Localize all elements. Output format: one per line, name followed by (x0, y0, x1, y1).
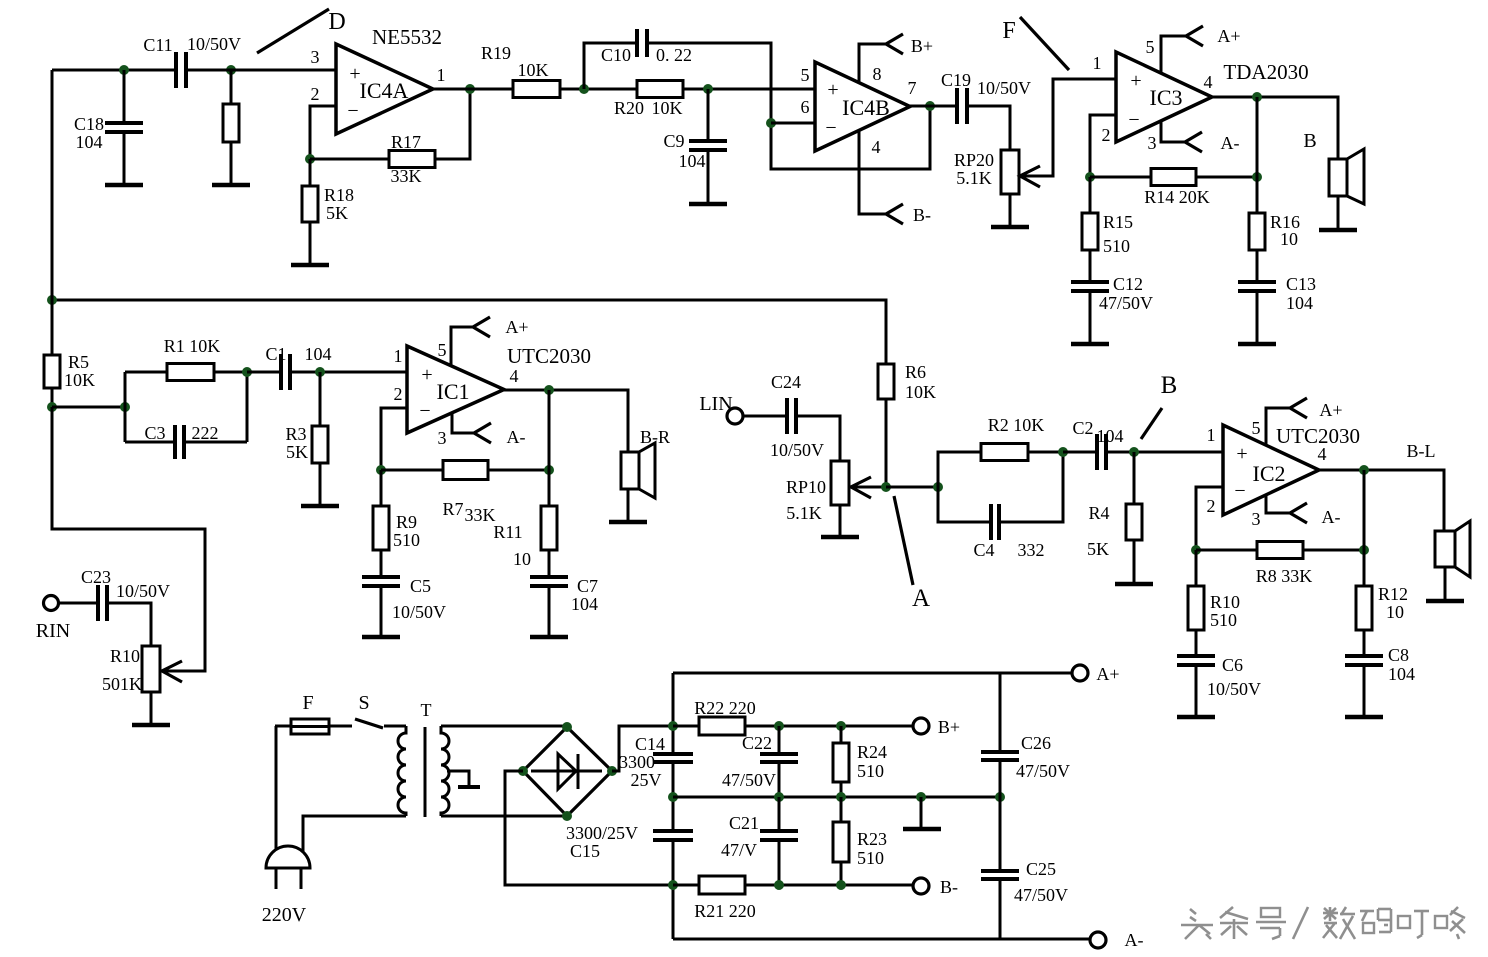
wire center tap (447, 771, 469, 786)
node junction (242, 367, 252, 377)
svg-text:10: 10 (1280, 229, 1298, 249)
op-amp IC4B (815, 62, 910, 151)
svg-text:LIN: LIN (699, 393, 732, 415)
resistor R1 (125, 336, 247, 381)
svg-text:C19: C19 (941, 70, 971, 90)
node junction (774, 721, 784, 731)
power A- stub (452, 413, 526, 447)
pin 4 (1204, 72, 1213, 92)
pin 3 (1252, 509, 1261, 529)
pin 4 (1318, 444, 1327, 464)
wire pin6 (771, 122, 815, 125)
svg-text:R8 33K: R8 33K (1256, 566, 1313, 586)
node junction (1252, 92, 1262, 102)
svg-text:A-: A- (1322, 507, 1341, 527)
svg-text:5: 5 (438, 340, 447, 360)
svg-text:47/50V: 47/50V (1099, 293, 1153, 313)
watermark text (1181, 907, 1465, 939)
node D (328, 9, 345, 35)
wire feedback (548, 390, 551, 470)
svg-text:R3: R3 (285, 424, 306, 444)
resistor R2 (938, 415, 1063, 487)
wire R5 to node (51, 388, 54, 407)
svg-text:R15: R15 (1103, 212, 1133, 232)
node junction (518, 766, 528, 776)
svg-text:C18: C18 (74, 114, 104, 134)
svg-text:C4: C4 (973, 540, 994, 560)
ground (609, 489, 647, 522)
capacitor C12 (1071, 250, 1153, 343)
svg-text:2: 2 (1207, 496, 1216, 516)
node B (1161, 372, 1178, 399)
pin 4 (510, 366, 519, 386)
wire C19 to RP20 (967, 106, 1010, 150)
resistor R17 (310, 89, 470, 186)
pin 1 (1093, 53, 1102, 73)
power A- stub (1266, 495, 1341, 527)
svg-text:C8: C8 (1388, 645, 1409, 665)
svg-text:B: B (1303, 130, 1316, 152)
node junction (305, 154, 315, 164)
svg-text:C26: C26 (1021, 733, 1051, 753)
resistor R23 (833, 797, 887, 885)
node junction (1191, 545, 1201, 555)
svg-text:C13: C13 (1286, 274, 1316, 294)
pin 1 (437, 65, 446, 85)
wire C11 to IC4A pin3 (186, 69, 336, 72)
node junction (1129, 447, 1139, 457)
wire IC4A out (433, 88, 513, 91)
svg-text:510: 510 (393, 530, 420, 550)
node junction (315, 367, 325, 377)
svg-text:−: − (1234, 480, 1245, 502)
capacitor C13 (1238, 250, 1316, 343)
svg-text:S: S (358, 692, 369, 714)
pin 2 (311, 84, 320, 104)
svg-text:2: 2 (311, 84, 320, 104)
resistor R10 (1188, 550, 1240, 630)
svg-text:5: 5 (1146, 37, 1155, 57)
node junction (668, 880, 678, 890)
pin 3 (1148, 133, 1157, 153)
node junction (47, 295, 57, 305)
svg-text:C11: C11 (143, 35, 172, 55)
capacitor C1 (247, 344, 407, 390)
node junction (1085, 172, 1095, 182)
capacitor C15 (653, 831, 693, 840)
transformer T primary (398, 726, 406, 816)
ground (1345, 665, 1383, 717)
node junction (544, 465, 554, 475)
wire R1C3 right (246, 372, 249, 442)
svg-text:10: 10 (1386, 602, 1404, 622)
svg-text:+: + (1130, 70, 1141, 92)
svg-text:B-: B- (940, 877, 958, 897)
svg-text:1: 1 (1207, 425, 1216, 445)
node A junction (881, 482, 891, 492)
svg-text:R11: R11 (493, 522, 522, 542)
node junction (668, 721, 678, 731)
svg-text:3300: 3300 (619, 752, 655, 772)
capacitor C10 (584, 29, 930, 169)
pin 6 (801, 97, 810, 117)
resistor R7 (381, 461, 549, 526)
svg-text:510: 510 (1103, 236, 1130, 256)
svg-text:A-: A- (1221, 133, 1240, 153)
ground (301, 463, 339, 506)
pin 5 (801, 65, 810, 85)
svg-text:+: + (827, 79, 838, 101)
capacitor C26 (981, 733, 1070, 781)
wire wiper to node A (851, 486, 886, 489)
ground (1115, 540, 1153, 584)
ground (821, 530, 859, 537)
svg-text:1: 1 (394, 346, 403, 366)
svg-text:B-L: B-L (1407, 441, 1436, 461)
svg-text:IC4A: IC4A (360, 78, 409, 103)
svg-text:R10: R10 (110, 646, 140, 666)
svg-text:F: F (302, 692, 313, 714)
capacitor C2 (1063, 418, 1223, 470)
svg-text:A+: A+ (1096, 664, 1119, 684)
svg-text:B+: B+ (938, 717, 960, 737)
svg-text:220V: 220V (262, 904, 307, 926)
wire mid rail (673, 796, 1000, 799)
svg-text:−: − (419, 400, 430, 422)
ground (530, 586, 568, 637)
ground mid rail (903, 797, 941, 829)
svg-text:R23: R23 (857, 829, 887, 849)
ground (212, 142, 250, 185)
svg-text:B: B (1161, 372, 1178, 399)
ground (1238, 291, 1276, 344)
node junction (579, 84, 589, 94)
node B line (1141, 408, 1162, 439)
resistor R20 (614, 81, 815, 119)
svg-text:5.1K: 5.1K (786, 503, 822, 523)
resistor R18 (302, 159, 354, 264)
resistor R12 (1356, 550, 1408, 630)
ground (132, 718, 170, 725)
svg-text:104: 104 (571, 594, 598, 614)
capacitor C11 (143, 34, 241, 88)
power A+ stub (451, 317, 529, 366)
svg-text:A+: A+ (505, 317, 528, 337)
pin 7 (908, 78, 917, 98)
svg-text:C21: C21 (729, 813, 759, 833)
svg-text:D: D (328, 9, 345, 35)
svg-text:10K: 10K (905, 382, 936, 402)
svg-text:R10: R10 (1210, 592, 1240, 612)
wire RP20 wiper to IC3 pin1 (1020, 79, 1116, 176)
wire A- rail (673, 938, 1090, 941)
resistor R4 (1087, 452, 1142, 583)
svg-text:6: 6 (801, 97, 810, 117)
terminal RIN (36, 596, 70, 643)
op-amp IC3 (1116, 52, 1212, 142)
wire R1C3 left (124, 372, 127, 442)
svg-text:C3: C3 (144, 423, 165, 443)
wire bridge minus (505, 771, 673, 885)
svg-text:5K: 5K (326, 203, 348, 223)
wire secondary bottom (441, 815, 567, 818)
op-amp IC2 (1223, 425, 1319, 515)
wire long rail (52, 300, 886, 364)
node A line (894, 496, 913, 585)
svg-text:3: 3 (1148, 133, 1157, 153)
svg-text:10K: 10K (64, 370, 95, 390)
pin 1 (394, 346, 403, 366)
node junction (1359, 545, 1369, 555)
svg-text:RP20: RP20 (954, 150, 994, 170)
svg-text:C14: C14 (635, 734, 665, 754)
pin 2 (394, 384, 403, 404)
power A+ stub (1266, 398, 1343, 445)
svg-text:C1: C1 (265, 344, 286, 364)
svg-text:NE5532: NE5532 (372, 25, 442, 49)
svg-text:R22 220: R22 220 (694, 698, 756, 718)
terminal B- (913, 877, 958, 897)
svg-text:C25: C25 (1026, 859, 1056, 879)
resistor R11 (493, 470, 557, 569)
node junction (836, 792, 846, 802)
svg-text:C24: C24 (771, 372, 801, 392)
capacitor C6 (1177, 630, 1261, 716)
svg-text:10: 10 (513, 549, 531, 569)
svg-text:104: 104 (1388, 664, 1415, 684)
power B- stub (859, 130, 931, 225)
svg-text:A-: A- (507, 427, 526, 447)
svg-text:501K: 501K (102, 674, 142, 694)
wire feedback (1256, 97, 1259, 177)
ground (362, 586, 400, 637)
svg-text:B-: B- (913, 205, 931, 225)
resistor R21 (673, 876, 913, 921)
ground (689, 150, 727, 204)
svg-text:10/50V: 10/50V (187, 34, 241, 54)
wire to R10 wiper (52, 407, 205, 671)
svg-text:C7: C7 (577, 576, 598, 596)
svg-text:RP10: RP10 (786, 477, 826, 497)
svg-text:1: 1 (1093, 53, 1102, 73)
wire feedback (1363, 470, 1366, 550)
ground (291, 222, 329, 265)
node A (912, 585, 930, 612)
svg-text:R4: R4 (1088, 503, 1109, 523)
svg-text:A+: A+ (1319, 400, 1342, 420)
capacitor C22 (722, 726, 798, 797)
svg-text:7: 7 (908, 78, 917, 98)
pin 3 (311, 47, 320, 67)
svg-text:2: 2 (394, 384, 403, 404)
svg-text:IC3: IC3 (1150, 85, 1183, 110)
capacitor C7 (530, 550, 598, 636)
wire IC2 out (1319, 470, 1444, 531)
svg-text:8: 8 (873, 64, 882, 84)
switch S (355, 692, 406, 728)
ground (1177, 665, 1215, 717)
node junction (47, 402, 57, 412)
node junction (376, 465, 386, 475)
capacitor C23 (58, 567, 170, 621)
node junction (562, 722, 572, 732)
wire secondary top (441, 725, 567, 728)
svg-text:510: 510 (1210, 610, 1237, 630)
svg-text:10/50V: 10/50V (392, 602, 446, 622)
svg-text:−: − (825, 117, 836, 139)
wire left vertical rail (672, 673, 675, 939)
svg-text:5K: 5K (286, 442, 308, 462)
capacitor C14 (619, 734, 693, 790)
wire IC1 pin2 (381, 408, 407, 470)
speaker B-L (1435, 521, 1470, 577)
wire C24 to RP10 (796, 416, 840, 461)
node junction (668, 792, 678, 802)
pin 2 (1207, 496, 1216, 516)
svg-text:A+: A+ (1217, 26, 1240, 46)
svg-text:R17: R17 (391, 132, 421, 152)
svg-text:−: − (347, 100, 358, 122)
svg-text:4: 4 (872, 137, 881, 157)
svg-text:R14 20K: R14 20K (1144, 187, 1210, 207)
svg-text:B-R: B-R (640, 427, 670, 447)
svg-text:+: + (421, 364, 432, 386)
svg-text:3: 3 (1252, 509, 1261, 529)
node junction (916, 792, 926, 802)
wire primary bottom (303, 816, 406, 852)
wire IC3 pin2 (1090, 115, 1116, 177)
svg-text:R12: R12 (1378, 584, 1408, 604)
wire IC3 out (1212, 97, 1338, 159)
wire left vertical (51, 70, 54, 355)
svg-text:10K: 10K (518, 60, 549, 80)
svg-text:C12: C12 (1113, 274, 1143, 294)
svg-text:4: 4 (510, 366, 519, 386)
svg-text:10/50V: 10/50V (977, 78, 1031, 98)
svg-text:332: 332 (1018, 540, 1045, 560)
label 3300/25V C15 (566, 823, 638, 861)
node IC4A output (465, 84, 475, 94)
ground (1071, 291, 1109, 344)
svg-text:−: − (1128, 109, 1139, 131)
speaker B (1303, 130, 1364, 204)
svg-text:C5: C5 (410, 576, 431, 596)
transformer T secondary (441, 726, 449, 816)
svg-text:TDA2030: TDA2030 (1223, 60, 1308, 84)
node IC4B output (925, 101, 935, 111)
resistor R3 (285, 372, 328, 505)
svg-text:104: 104 (679, 151, 706, 171)
svg-text:510: 510 (857, 848, 884, 868)
pin 3 (438, 428, 447, 448)
node junction (995, 792, 1005, 802)
svg-text:104: 104 (1286, 293, 1313, 313)
wire node to R1C3 (52, 406, 125, 409)
label TDA2030 (1223, 60, 1308, 84)
svg-text:104: 104 (305, 344, 332, 364)
pin 5 (1252, 418, 1261, 438)
resistor R15 (1082, 177, 1133, 256)
svg-text:4: 4 (1318, 444, 1327, 464)
wire right vertical rail (999, 673, 1002, 939)
pin 8 (873, 64, 882, 84)
potentiometer RP20 (954, 150, 1040, 194)
svg-text:IC1: IC1 (437, 379, 470, 404)
pin 5 (438, 340, 447, 360)
label UTC2030 (1276, 424, 1360, 448)
svg-text:F: F (1002, 18, 1015, 44)
ground (1319, 196, 1357, 230)
capacitor C19 (941, 70, 1031, 124)
op-amp IC1 (407, 346, 504, 433)
speaker B-R (621, 427, 670, 498)
capacitor C9 (663, 89, 727, 203)
svg-text:IC2: IC2 (1253, 461, 1286, 486)
node junction (226, 65, 236, 75)
op-amp IC4A (336, 44, 433, 134)
wire IC4B out (910, 105, 957, 108)
label NE5532 (372, 25, 442, 49)
capacitor C3 (125, 423, 247, 459)
svg-text:C23: C23 (81, 567, 111, 587)
terminal B+ (913, 717, 960, 737)
svg-text:47/50V: 47/50V (1014, 885, 1068, 905)
pin 1 (1207, 425, 1216, 445)
svg-text:10/50V: 10/50V (770, 440, 824, 460)
svg-text:C15: C15 (570, 841, 600, 861)
capacitor C18 (74, 70, 143, 184)
plug 220V (262, 846, 310, 926)
svg-text:104: 104 (76, 132, 103, 152)
capacitor C8 (1345, 630, 1415, 716)
svg-text:10/50V: 10/50V (116, 581, 170, 601)
power A+ stub (1161, 26, 1241, 73)
power B+ stub (859, 34, 933, 83)
wire RP10 bottom (839, 505, 842, 536)
capacitor C4 (938, 452, 1063, 560)
svg-text:10K: 10K (652, 98, 683, 118)
pin 2 (1102, 125, 1111, 145)
resistor R8 (1196, 542, 1364, 587)
resistor R19 (481, 43, 560, 98)
potentiometer RP10 (786, 461, 871, 523)
fuse F (275, 692, 352, 734)
svg-text:10/50V: 10/50V (1207, 679, 1261, 699)
ground (1426, 567, 1464, 601)
capacitor C24 (743, 372, 824, 460)
wire R19 to R20 (560, 88, 637, 91)
svg-text:0. 22: 0. 22 (656, 45, 692, 65)
svg-text:R19: R19 (481, 43, 511, 63)
node junction (1252, 172, 1262, 182)
svg-text:2: 2 (1102, 125, 1111, 145)
wire bridge plus (612, 726, 673, 771)
node junction (836, 880, 846, 890)
svg-text:3300/25V: 3300/25V (566, 823, 638, 843)
svg-text:UTC2030: UTC2030 (507, 344, 591, 368)
terminal A- (1090, 930, 1144, 950)
svg-text:R9: R9 (396, 512, 417, 532)
node F line (1020, 17, 1069, 70)
svg-text:3: 3 (311, 47, 320, 67)
svg-text:R2 10K: R2 10K (988, 415, 1045, 435)
resistor R22 (673, 698, 913, 735)
pin 4 (872, 137, 881, 157)
resistor R16 (1249, 177, 1300, 250)
terminal LIN (699, 393, 743, 424)
wire plug left (275, 726, 278, 850)
ground (991, 194, 1029, 227)
